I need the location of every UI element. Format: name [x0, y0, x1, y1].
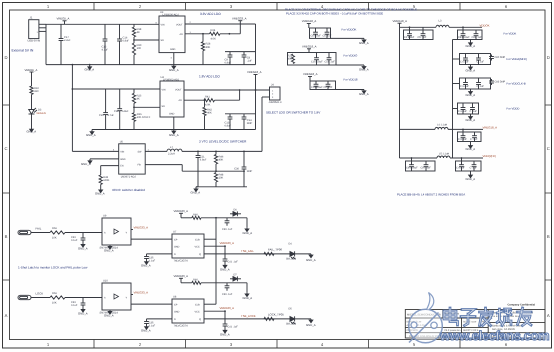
U3 output cap rail — [225, 51, 256, 53]
svg-text:VIN: VIN — [162, 88, 166, 91]
row VDDQ capacitor 4 — [472, 161, 477, 171]
VDDK right drop — [462, 27, 464, 30]
svg-text:D: D — [4, 55, 7, 60]
inductor L4 — [435, 127, 448, 129]
LED chain wire 3 — [31, 114, 33, 127]
svg-text:GND: GND — [174, 311, 180, 314]
row VDDD capacitor 2 — [470, 103, 475, 114]
U3 ADJ wire — [185, 33, 210, 35]
svg-text:L5 1.1uH: L5 1.1uH — [439, 152, 449, 155]
inverter U10 — [102, 283, 131, 310]
bottom band tick 3 — [276, 340, 278, 349]
U3 cap rail drop — [255, 24, 257, 65]
mid bus top link — [453, 39, 458, 41]
row VDDCLK cap group — [460, 78, 491, 89]
flip-flop U7 — [172, 234, 204, 258]
junction C21 — [197, 151, 199, 153]
bottom band tick 5 — [459, 340, 461, 349]
R42 tap vertical — [204, 100, 206, 107]
svg-text:40K: 40K — [206, 46, 211, 49]
VDDK group drop 2 — [422, 27, 424, 30]
resistor latch LOCK pullup — [192, 281, 201, 284]
ground GND_A VDDK — [469, 42, 473, 45]
junction FB divider — [215, 170, 217, 172]
U4 ADJ wire 2 — [215, 99, 240, 101]
right band tick 2 — [545, 192, 552, 194]
R18-R20 mid node wire — [133, 37, 135, 43]
U9 inverter symbol — [114, 229, 119, 234]
R25 top lead — [133, 89, 135, 93]
svg-text:VREG33_A: VREG33_A — [134, 291, 149, 295]
R25-R26 node — [133, 103, 135, 113]
svg-text:GND_A: GND_A — [243, 296, 253, 300]
svg-text:VREG5_A: VREG5_A — [25, 68, 38, 72]
regulator U3 — [159, 16, 185, 53]
capacitor C89 — [474, 30, 479, 40]
svg-text:U5: U5 — [120, 141, 124, 144]
svg-text:GND: GND — [169, 113, 175, 116]
svg-text:GND: GND — [170, 48, 176, 51]
watermark char shao — [497, 309, 511, 326]
svg-text:C: C — [547, 146, 550, 151]
regulator U4 — [160, 81, 184, 117]
latch LOCK oneshot out wire — [131, 303, 172, 305]
row VDDA bus stub — [453, 58, 460, 60]
latch FAIL input wire 2 — [65, 232, 102, 234]
svg-text:GND_A: GND_A — [243, 231, 253, 235]
svg-text:C89 .1uF: C89 .1uF — [472, 36, 483, 39]
left band tick 3 — [3, 279, 10, 281]
ground GND_A row VDDCLK — [469, 91, 473, 94]
svg-text:CLB: CLB — [195, 304, 200, 307]
svg-text:VREG18_A: VREG18_A — [303, 72, 318, 76]
diode D7 — [230, 276, 241, 281]
capacitor C5b — [421, 30, 426, 40]
junction row6 left — [411, 157, 413, 159]
svg-text:USB-5V-IN: USB-5V-IN — [28, 40, 41, 43]
capacitor latch LOCK input — [81, 298, 86, 309]
svg-text:40K: 40K — [288, 58, 293, 61]
svg-text:4.7uF: 4.7uF — [108, 114, 115, 117]
U4 output cap rail — [225, 113, 256, 115]
junction vddk1 — [409, 26, 411, 28]
svg-text:B: B — [5, 234, 8, 239]
latch LOCK power end drop — [246, 283, 248, 293]
svg-text:C6 .1uF: C6 .1uF — [323, 35, 332, 38]
svg-text:R60: R60 — [193, 279, 198, 282]
svg-text:VIN: VIN — [161, 23, 165, 26]
resistor R28 — [201, 42, 204, 51]
svg-text:LOCK: LOCK — [36, 291, 44, 295]
svg-text:GND_A: GND_A — [27, 130, 37, 134]
J1 pin 3 stub — [39, 30, 46, 32]
junction C30 fb — [243, 170, 245, 172]
svg-text:GND_A: GND_A — [78, 311, 88, 315]
row VDDQ capacitor 1 — [409, 161, 414, 171]
R38 bottom lead — [100, 185, 102, 189]
svg-text:R56: R56 — [52, 227, 57, 230]
LED latch FAIL indicator — [290, 251, 295, 259]
power flag VREG5_A LED — [30, 72, 34, 76]
row VDDQ right cap group — [456, 161, 482, 171]
power flag bank VDDIO — [307, 49, 311, 53]
ground GND_A latch FAIL D — [145, 261, 149, 265]
svg-text:GND_A: GND_A — [104, 248, 114, 252]
ground U10 — [108, 310, 112, 314]
svg-text:TSE_FAIL: TSE_FAIL — [241, 249, 254, 253]
svg-text:GND_A: GND_A — [220, 267, 230, 271]
R18 top lead — [133, 24, 135, 27]
svg-text:AD: AD — [179, 99, 183, 102]
svg-text:6.8uF: 6.8uF — [225, 125, 232, 128]
U4 input bus wire — [72, 88, 160, 90]
svg-text:C9 .1uF: C9 .1uF — [324, 86, 333, 89]
row VDDQ bus wire 2 — [450, 157, 483, 159]
svg-text:For VDD18: For VDD18 — [344, 78, 358, 82]
resistor R46 — [214, 154, 217, 164]
J1 ground drop wire — [45, 24, 47, 64]
capacitor C21 — [196, 151, 201, 186]
ground GND_A bank VDDOK — [362, 39, 366, 42]
svg-text:VREG18_A: VREG18_A — [247, 70, 262, 74]
svg-text:GND_A: GND_A — [104, 313, 114, 317]
svg-text:VREG18_A: VREG18_A — [302, 45, 317, 49]
junction C30 top — [243, 151, 245, 153]
svg-text:C39 .1uF: C39 .1uF — [222, 228, 233, 231]
svg-text:GND_A: GND_A — [359, 41, 369, 45]
testpoint FAIL — [18, 230, 31, 234]
ground GND_A row5 — [469, 145, 473, 148]
U3 GND pin wire — [173, 53, 175, 65]
switcher net vertical — [261, 97, 263, 151]
svg-text:Company Confidential: Company Confidential — [508, 304, 536, 307]
latch LOCK Q output wire — [204, 318, 290, 320]
capacitor C6 — [117, 24, 122, 64]
svg-text:SELECT LDO OR SWITCHER TO 1.8V: SELECT LDO OR SWITCHER TO 1.8V — [266, 111, 321, 115]
ground GND_A row6 — [469, 175, 473, 178]
VDDK gnd lead — [470, 40, 472, 43]
svg-text:U9: U9 — [103, 215, 107, 218]
svg-text:3 VTG LEVEL DC/DC SWITCHER: 3 VTG LEVEL DC/DC SWITCHER — [199, 140, 247, 144]
U3 VOUT wire — [185, 23, 256, 25]
U4 input branch vertical — [71, 65, 73, 152]
inductor L7 — [167, 149, 182, 151]
title block outline — [405, 310, 545, 339]
power flag VREG33_A latch FAIL — [179, 213, 183, 218]
row VDDCLK gnd lead — [470, 89, 472, 91]
svg-text:GND_A: GND_A — [466, 44, 476, 48]
capacitor latch FAIL input — [81, 233, 86, 244]
latch LOCK input wire 1 — [31, 297, 50, 299]
svg-text:GND_A: GND_A — [169, 68, 179, 72]
R46 top lead — [215, 151, 217, 154]
U4 cap rail drop — [255, 90, 257, 130]
svg-text:GND_A: GND_A — [466, 68, 476, 72]
diode D6 — [230, 211, 241, 216]
junction U4 divider — [133, 106, 135, 108]
U7 CLB stub — [204, 238, 216, 240]
svg-text:4.7uF: 4.7uF — [102, 49, 109, 52]
resistor R41 — [204, 99, 215, 102]
capacitor latch FAIL filter — [225, 218, 230, 226]
junction row5 — [462, 129, 464, 131]
power flag VREG33_A latch LOCK — [179, 278, 183, 283]
switcher U5 — [119, 144, 146, 174]
bank VDDIO gnd drop — [363, 65, 365, 66]
capacitor latch LOCK D — [144, 319, 149, 326]
svg-text:GND_A: GND_A — [78, 246, 88, 250]
capacitor C7 — [103, 89, 108, 130]
row VDDQ capacitor 2 — [424, 161, 429, 171]
svg-text:10K: 10K — [52, 237, 57, 240]
capacitor latch LOCK vcc bypass — [223, 311, 228, 329]
U8 VCC stub — [204, 310, 225, 312]
ground GND_A bank VDDIO — [362, 66, 366, 69]
junction inter-row top — [215, 217, 217, 219]
svg-text:C4 6.8uF: C4 6.8uF — [404, 36, 415, 39]
junction U4 vout — [239, 89, 241, 91]
svg-text:Size B Doc 1234-SCH Rev A: Size B Doc 1234-SCH Rev A — [491, 315, 522, 318]
svg-text:GND_A: GND_A — [86, 133, 96, 137]
svg-text:For VDDCLK-B: For VDDCLK-B — [507, 82, 526, 86]
svg-text:FAIL: FAIL — [36, 226, 42, 230]
inductor L5 — [437, 156, 450, 158]
left band tick 2 — [3, 192, 10, 194]
svg-text:GND_A: GND_A — [191, 190, 201, 194]
svg-text:D: D — [547, 55, 550, 60]
U3 ADJ wire 2 — [220, 33, 240, 35]
svg-text:2.2uH: 2.2uH — [168, 152, 175, 155]
svg-text:VIN: VIN — [120, 151, 124, 154]
latch FAIL input wire 1 — [31, 232, 50, 234]
svg-text:GND_A: GND_A — [466, 147, 476, 151]
junction U4 bus — [72, 88, 74, 90]
jumper switcher pin wire — [262, 96, 270, 98]
svg-text:0.1uF: 0.1uF — [71, 239, 78, 242]
svg-text:R60: R60 — [193, 214, 198, 217]
row VREG18 capacitor 1 — [461, 132, 466, 142]
resistor R25 — [132, 93, 135, 103]
U4 feedback vertical — [239, 90, 241, 100]
junction jumper feed — [255, 89, 257, 91]
power flag VREG5_A — [63, 21, 67, 25]
row VDDQ bus wire — [400, 157, 438, 159]
junction R divider — [133, 39, 135, 41]
svg-text:100K: 100K — [103, 179, 109, 182]
svg-text:R56: R56 — [52, 292, 57, 295]
svg-text:GND_A: GND_A — [306, 258, 316, 262]
svg-text:VREG5_A: VREG5_A — [57, 16, 70, 20]
svg-text:4K: 4K — [137, 31, 140, 34]
svg-text:4.0K: 4.0K — [211, 37, 217, 40]
bank VDDIO capacitor 2 — [327, 53, 332, 66]
ground GND_A LED — [30, 127, 34, 132]
bottom band tick 4 — [368, 340, 370, 349]
svg-text:GND_A: GND_A — [306, 323, 316, 327]
ground GND_A latch FAIL input — [81, 243, 85, 247]
LED chain wire 1 — [31, 76, 33, 86]
svg-text:GND_A: GND_A — [141, 329, 151, 333]
svg-text:GND_A: GND_A — [85, 67, 95, 71]
svg-text:C 6.8uF: C 6.8uF — [458, 138, 467, 141]
ground GND_A switcher — [194, 187, 198, 192]
row VREG18 bus wire — [400, 128, 436, 130]
top band tick 3 — [276, 3, 278, 11]
right net top bus — [400, 26, 437, 28]
capacitor C13 — [228, 114, 233, 130]
U9 vcc stub — [131, 229, 133, 231]
svg-text:2.2uF: 2.2uF — [64, 39, 71, 42]
svg-text:PLACE X2Y/0402 CAP ON BOTH SID: PLACE X2Y/0402 CAP ON BOTH SIDES - 0.1uF… — [286, 11, 383, 15]
right net left bus — [399, 27, 401, 158]
switcher output wire — [182, 150, 262, 152]
svg-text:J1: J1 — [30, 16, 33, 20]
svg-text:LOCK_TP05: LOCK_TP05 — [268, 313, 284, 317]
svg-text:GND_A: GND_A — [359, 68, 369, 72]
svg-text:10K: 10K — [52, 302, 57, 305]
svg-text:C .1uF: C .1uF — [470, 110, 478, 113]
R28 tap vertical — [202, 34, 204, 42]
svg-text:0.1uF: 0.1uF — [149, 325, 156, 328]
bank VDDIO resistor — [292, 54, 295, 64]
svg-text:GND_A: GND_A — [466, 118, 476, 122]
svg-text:VOUT: VOUT — [176, 23, 183, 26]
U4 ADJ wire — [184, 99, 204, 101]
svg-text:SM_LED: SM_LED — [286, 323, 296, 326]
U10 vcc stub — [131, 294, 133, 296]
power flag bank VDDOK — [307, 24, 311, 29]
svg-text:B: B — [547, 234, 550, 239]
top band tick 1 — [93, 3, 95, 11]
svg-text:FAIL_TP06: FAIL_TP06 — [268, 248, 282, 252]
svg-text:VCC: VCC — [195, 246, 200, 249]
bank VDD18 cap bank outline — [310, 81, 336, 90]
U7 VCC stub — [204, 245, 225, 247]
row VDDD gnd lead — [470, 114, 472, 116]
ground U9 — [108, 245, 112, 249]
resistor R10 — [30, 86, 33, 95]
junction U7 vcc — [224, 245, 226, 247]
jumper J4 — [270, 87, 281, 100]
U7 D stub — [147, 253, 173, 255]
svg-text:GND: GND — [174, 246, 180, 249]
svg-text:A: A — [5, 313, 8, 318]
svg-text:C20: C20 — [99, 114, 104, 117]
junction U4 rail drop — [255, 89, 257, 91]
svg-text:GND: GND — [120, 158, 126, 161]
row VDDCLK bus stub — [453, 83, 460, 85]
svg-text:LP38502-ADJ: LP38502-ADJ — [163, 79, 180, 82]
svg-text:20K: 20K — [219, 177, 224, 180]
junction vddk2 — [462, 26, 464, 28]
svg-text:6.8uF: 6.8uF — [200, 159, 207, 162]
svg-text:C83 DNP: C83 DNP — [495, 81, 506, 84]
resistor R38 — [99, 175, 102, 185]
svg-text:100-STUFF: 100-STUFF — [137, 116, 151, 119]
VDDK group drop 1 — [409, 27, 411, 30]
svg-text:40K: 40K — [219, 159, 224, 162]
bank VDD18 capacitor 1 — [314, 81, 319, 90]
svg-text:A: A — [547, 313, 550, 318]
R46 to FB — [215, 164, 217, 171]
resistor latch LOCK input — [50, 296, 65, 299]
svg-text:C 6.8uF: C 6.8uF — [458, 110, 467, 113]
svg-text:VREG33_A: VREG33_A — [134, 226, 149, 230]
svg-text:0.1uF: 0.1uF — [149, 260, 156, 263]
svg-text:C .1uF: C .1uF — [477, 85, 485, 88]
U5 FB step down — [181, 165, 183, 172]
svg-text:Q: Q — [199, 253, 201, 256]
right net mid bus — [452, 40, 454, 159]
ground GND_A U4 rail — [90, 130, 94, 135]
junction R28 tap — [202, 33, 204, 35]
svg-text:C97 .1uF: C97 .1uF — [421, 167, 432, 170]
svg-text:U10: U10 — [103, 280, 108, 283]
LED D3 — [29, 108, 38, 114]
bank VDDIO gnd wire — [336, 64, 364, 66]
junction R46 — [215, 151, 217, 153]
right net top bus 2 — [449, 26, 482, 28]
latch FAIL power end drop — [246, 218, 248, 228]
U3 feedback vertical — [239, 24, 241, 34]
ground GND_A latch LOCK input — [81, 308, 85, 312]
svg-text:6.8uF: 6.8uF — [123, 40, 130, 43]
junction U3 adj — [229, 33, 231, 35]
svg-text:74LVC2G74: 74LVC2G74 — [174, 260, 189, 263]
watermark char dian — [444, 308, 458, 325]
VDDK right cap group — [458, 30, 483, 40]
svg-text:C39 .1uF: C39 .1uF — [222, 293, 233, 296]
J1 pin 1 stub — [39, 23, 46, 25]
top band tick 4 — [368, 3, 370, 11]
svg-text:R41: R41 — [205, 95, 210, 98]
power flag VREG33_A — [238, 21, 242, 24]
svg-text:For VDDA(MHz): For VDDA(MHz) — [507, 57, 527, 61]
svg-text:R24: R24 — [211, 29, 216, 32]
resistor latch FAIL pullup — [192, 216, 201, 219]
U10 inverter symbol — [114, 294, 119, 299]
svg-text:CP: CP — [174, 304, 178, 307]
ground GND_A R38 — [99, 188, 103, 193]
svg-text:VREG33_A: VREG33_A — [174, 209, 189, 213]
row VREG18 capacitor 2 — [472, 132, 477, 142]
capacitor C4 — [407, 30, 412, 40]
flip-flop U8 — [172, 299, 204, 323]
svg-text:C41 .1uF: C41 .1uF — [228, 261, 239, 264]
svg-text:C .1uF: C .1uF — [470, 167, 478, 170]
U5 FB wire — [145, 164, 182, 166]
svg-text:C30: C30 — [234, 168, 239, 171]
bank VDD18 gnd wire — [336, 89, 365, 91]
U8 CLB stub — [204, 303, 216, 305]
power flag bank VDD18 — [308, 77, 312, 82]
resistor latch FAIL output — [264, 252, 274, 255]
latch LOCK power wire 2 — [201, 282, 247, 284]
ground GND_A latch LOCK D — [145, 326, 149, 330]
svg-text:C82 DNP: C82 DNP — [495, 56, 506, 59]
junction U8 vcc — [224, 310, 226, 312]
svg-text:C11: C11 — [114, 110, 119, 113]
svg-text:GND_A: GND_A — [141, 264, 151, 268]
row VREG18 gnd lead — [470, 142, 472, 146]
svg-text:GND_A: GND_A — [81, 162, 91, 166]
svg-text:74LVC2G74: 74LVC2G74 — [174, 325, 189, 328]
svg-text:C8 6.8uF: C8 6.8uF — [311, 35, 322, 38]
row VREG18 drop — [462, 129, 464, 132]
capacitor C30 — [242, 151, 247, 186]
J1 pin 2 stub — [39, 27, 46, 29]
svg-text:C .1uF: C .1uF — [477, 60, 485, 63]
